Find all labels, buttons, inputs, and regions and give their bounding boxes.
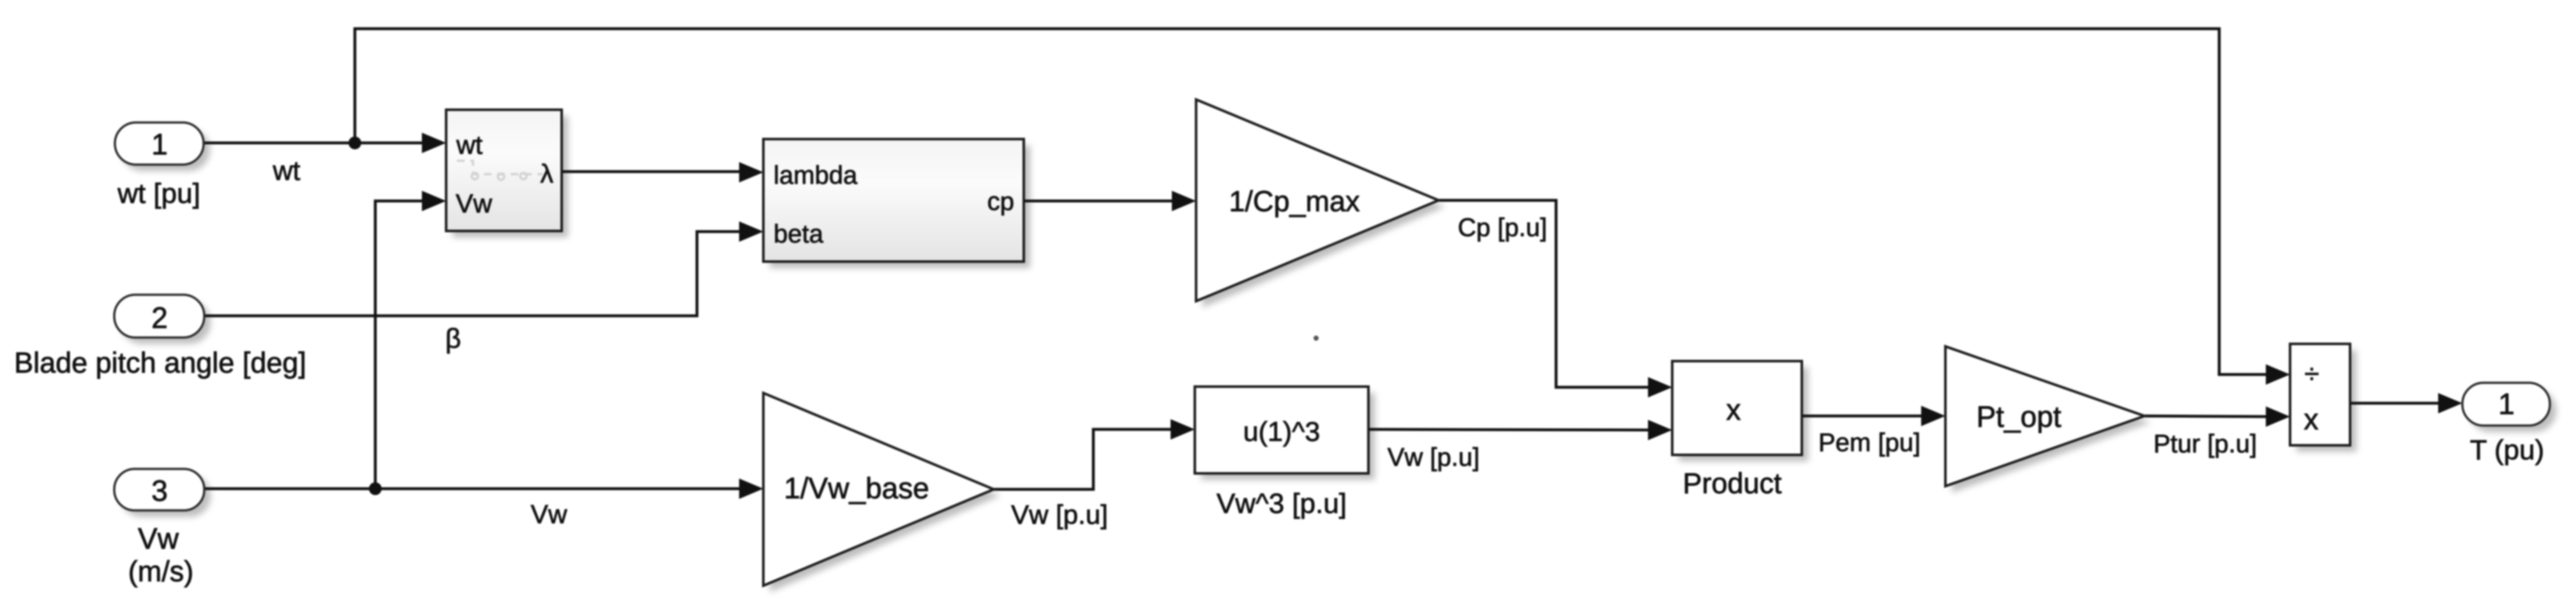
svg-text:Vw [p.u]: Vw [p.u] (1011, 500, 1108, 530)
svg-text:T (pu): T (pu) (2470, 434, 2545, 466)
svg-text:Vw: Vw (531, 500, 567, 529)
svg-text:lambda: lambda (774, 161, 858, 189)
svg-text:x: x (1726, 393, 1741, 426)
svg-text:Vw: Vw (138, 522, 179, 555)
svg-text:(m/s): (m/s) (128, 555, 193, 588)
svg-text:Vw [p.u]: Vw [p.u] (1388, 443, 1480, 471)
svg-text:β: β (446, 323, 461, 354)
svg-text:Cp [p.u]: Cp [p.u] (1458, 214, 1547, 242)
svg-text:wt: wt (456, 130, 483, 159)
svg-text:u(1)^3: u(1)^3 (1243, 417, 1321, 447)
svg-text:3: 3 (151, 474, 168, 507)
svg-text:cp: cp (987, 188, 1014, 216)
svg-text:λ: λ (541, 159, 554, 188)
svg-text:÷: ÷ (2304, 359, 2319, 389)
svg-text:Vw: Vw (456, 189, 492, 218)
svg-text:Pem [pu]: Pem [pu] (1818, 429, 1921, 457)
svg-text:1/Cp_max: 1/Cp_max (1229, 185, 1360, 218)
svg-text:Ptur [p.u]: Ptur [p.u] (2153, 430, 2257, 458)
svg-text:1: 1 (151, 128, 168, 161)
svg-text:Vw^3 [p.u]: Vw^3 [p.u] (1217, 488, 1347, 519)
svg-text:Product: Product (1682, 467, 1782, 500)
svg-text:2: 2 (151, 301, 168, 334)
svg-text:1: 1 (2498, 387, 2515, 420)
svg-text:beta: beta (774, 220, 824, 248)
svg-text:wt: wt (273, 156, 301, 186)
svg-text:wt [pu]: wt [pu] (117, 178, 200, 209)
svg-text:Blade pitch angle [deg]: Blade pitch angle [deg] (14, 346, 306, 379)
svg-text:Pt_opt: Pt_opt (1977, 400, 2062, 433)
svg-text:1/Vw_base: 1/Vw_base (784, 471, 929, 505)
svg-text:x: x (2304, 403, 2319, 436)
